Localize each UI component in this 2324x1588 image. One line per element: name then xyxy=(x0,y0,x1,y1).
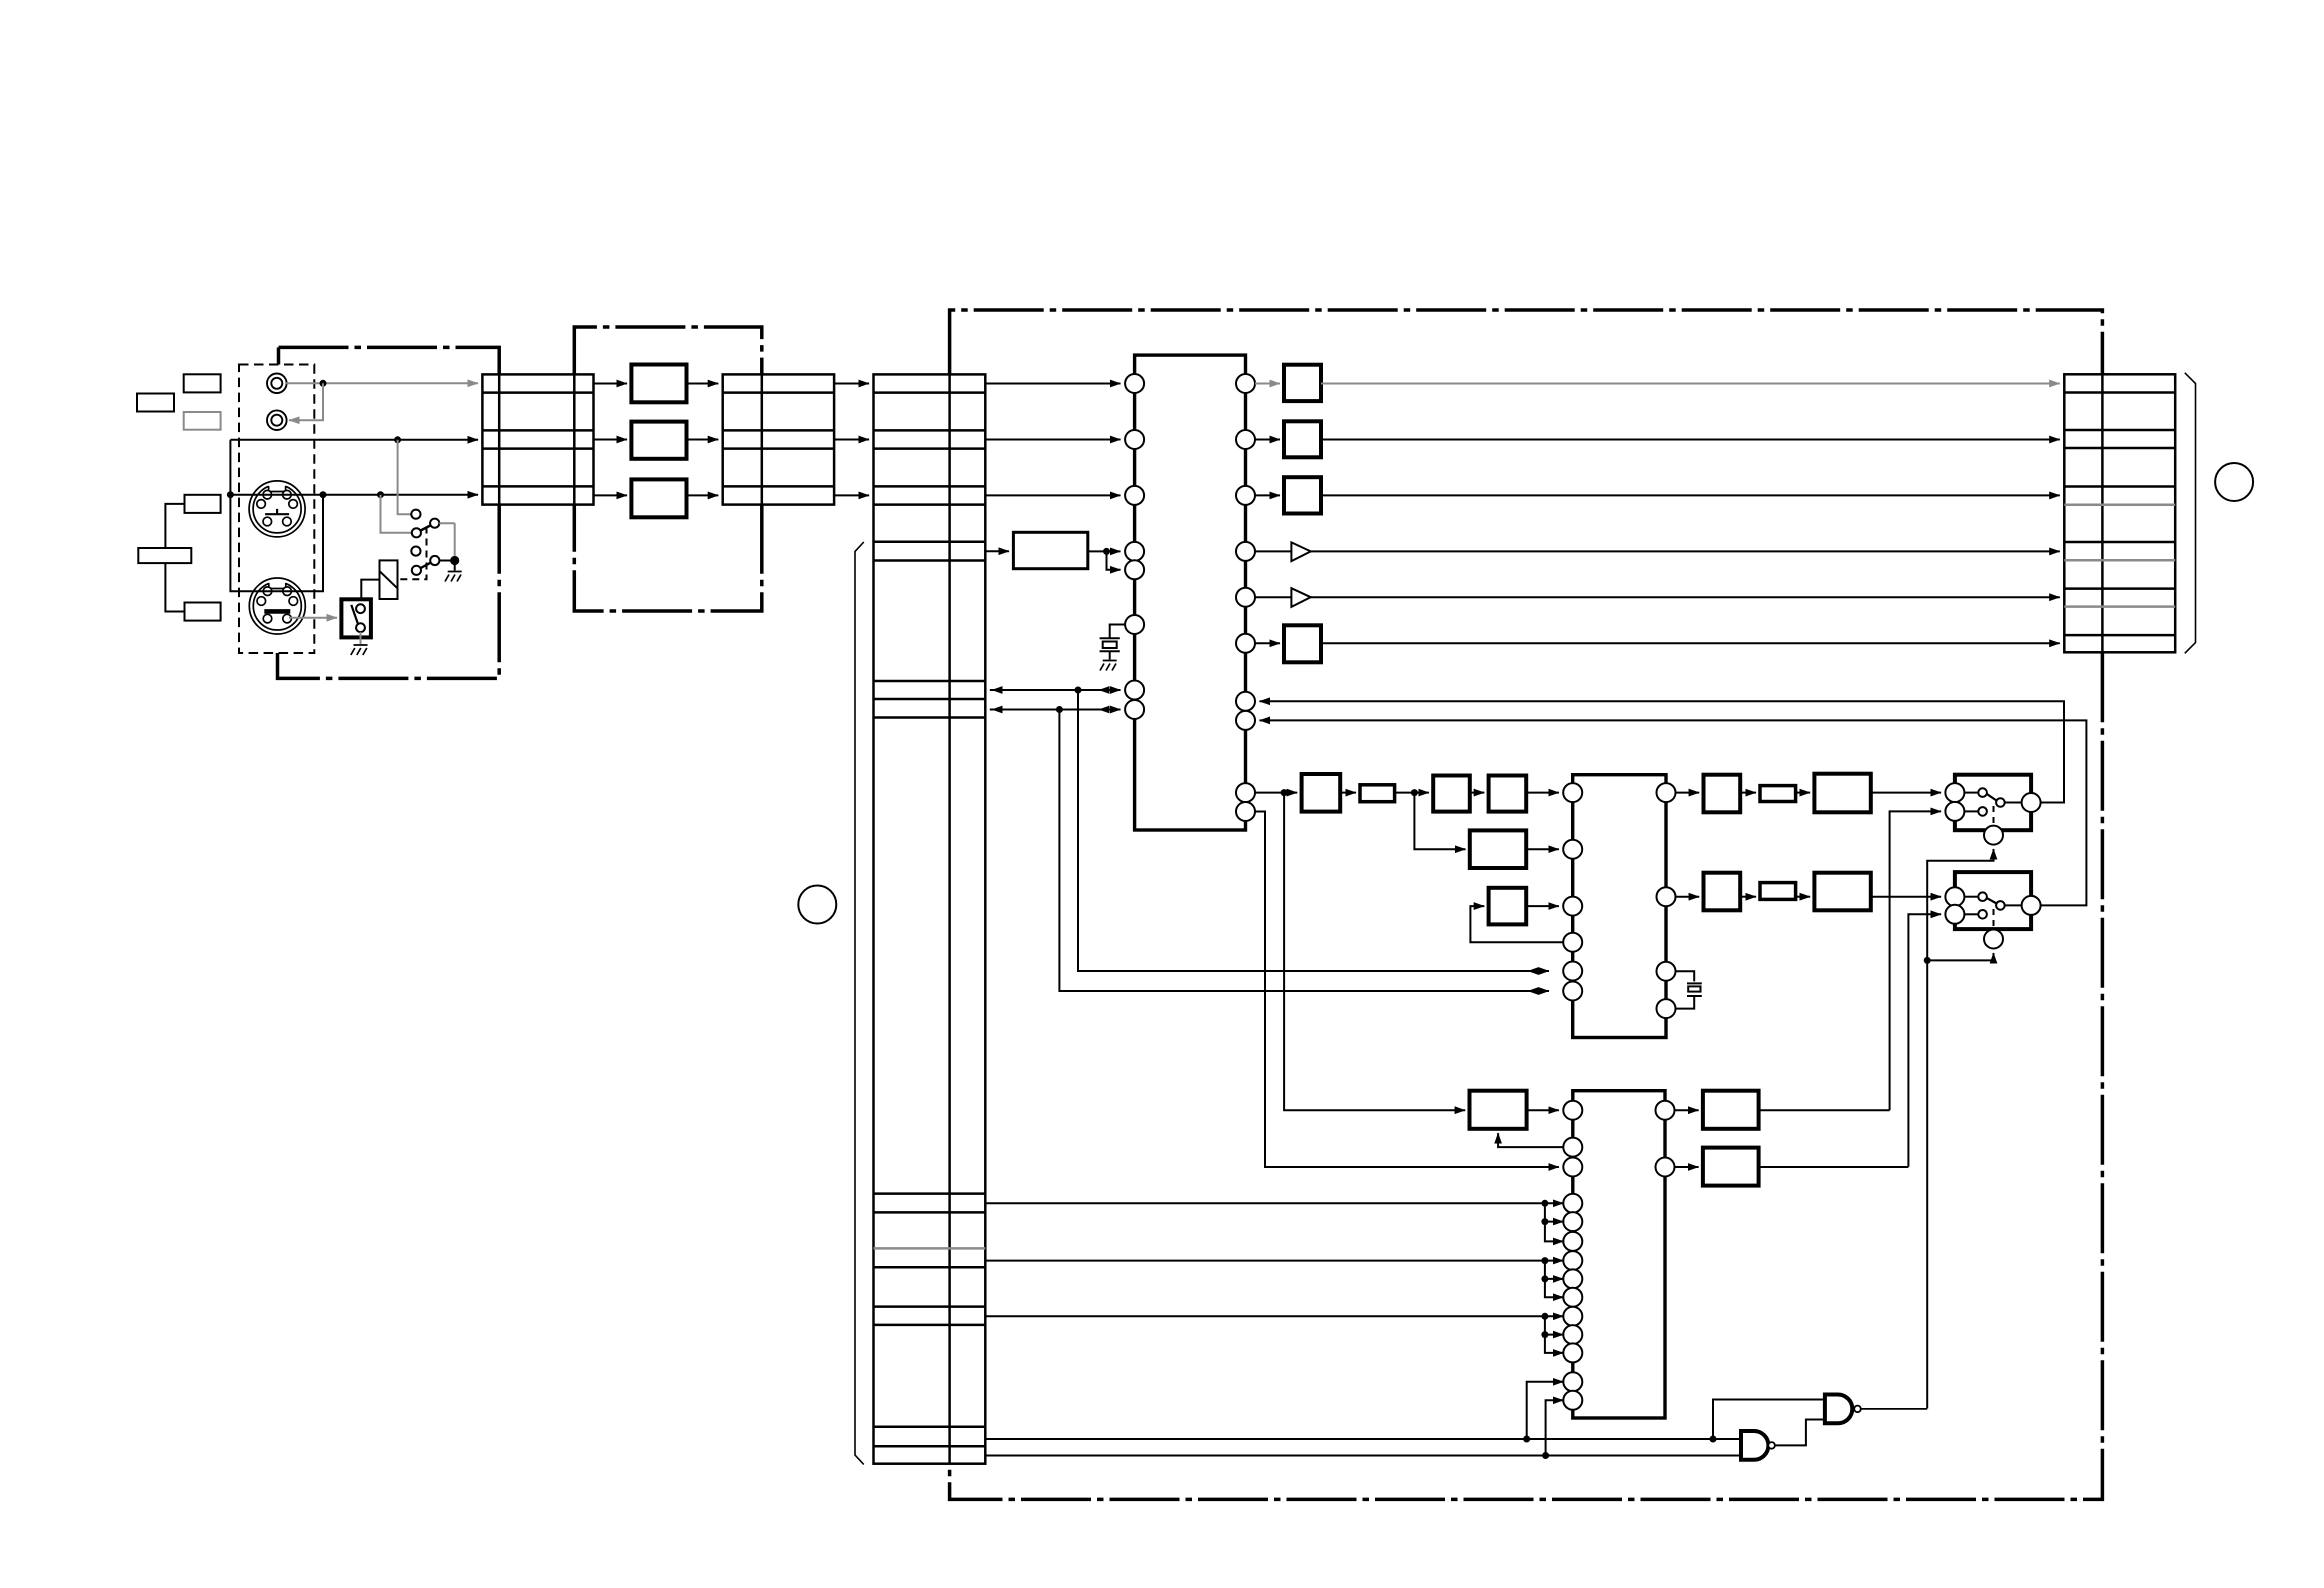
block G3 xyxy=(1470,830,1526,868)
node group2 junction a xyxy=(1541,1257,1548,1264)
block H3 xyxy=(1704,873,1741,911)
lever SW2 xyxy=(1987,898,1997,904)
switch S1 pole 2 xyxy=(430,556,439,565)
wire CN1 to F1 xyxy=(594,383,628,385)
wire S1 pole1 to ground bus (gray drop) xyxy=(439,523,454,556)
pin SW1 in b xyxy=(1945,802,1964,821)
switch S1 contact d xyxy=(412,566,421,575)
node B reference circle xyxy=(798,886,836,924)
wire CN1 to F2 xyxy=(594,439,628,441)
block H4 xyxy=(1814,873,1870,911)
filter block F2 xyxy=(631,422,686,459)
pin SW2 common xyxy=(2005,904,2022,906)
wire K3 to SW2 riser xyxy=(1759,1166,1909,1168)
switch S1 contact a (from video line, gray) xyxy=(398,440,411,514)
label box L3 (gray) xyxy=(184,412,221,430)
switch S1 pole 1 xyxy=(430,519,439,528)
resistor R1 xyxy=(1360,785,1395,802)
wire B1 to CN4 (gray) xyxy=(1321,383,2060,385)
bubble NAND1 xyxy=(1854,1406,1861,1413)
ground GND2 xyxy=(351,645,368,655)
pin SW1 in a xyxy=(1945,783,1964,802)
pin U3-L12 xyxy=(1563,1343,1582,1362)
switch S2 (detect switch) xyxy=(341,599,371,637)
pin U3-L2 xyxy=(1563,1138,1582,1157)
pin U3-L11 xyxy=(1563,1325,1582,1344)
block B1 xyxy=(1284,365,1321,401)
connector CN4 (right output header) xyxy=(2064,374,2175,652)
wire CN2 to CN3 row3 xyxy=(834,494,869,496)
switch S1 contact c xyxy=(411,547,420,556)
wire NAND1 output to control bus xyxy=(1861,1408,1927,1410)
node DL1 out junction xyxy=(1103,548,1110,555)
block B5 xyxy=(1302,774,1341,812)
pin U2-L1 xyxy=(1563,783,1582,802)
wire elbow to U3-L14 xyxy=(1546,1400,1564,1455)
switch SW2 xyxy=(1955,872,2031,929)
block B4 xyxy=(1284,625,1321,662)
wire A2 to CN4 xyxy=(1311,596,2060,598)
node A reference circle xyxy=(2215,463,2253,501)
wire K1 to U3-L1 xyxy=(1527,1109,1559,1111)
node group3 junction b xyxy=(1541,1331,1548,1338)
board boundary: input jack board (dash-dot) xyxy=(278,347,500,678)
wire H1 to R2 xyxy=(1740,792,1756,794)
wire F2 to CN2 xyxy=(687,439,719,441)
amp A2 (triangle) xyxy=(1255,588,1311,607)
wire Y line xyxy=(230,494,478,496)
wire U2-L4 feedback to G4 xyxy=(1470,906,1563,942)
wire B3 to CN4 xyxy=(1321,494,2060,496)
node Y junction 1 xyxy=(227,491,234,498)
block G4 xyxy=(1489,888,1527,925)
pin U1-L2 xyxy=(1125,430,1144,449)
bubble NAND2 xyxy=(1768,1442,1775,1449)
wire U3-R2 to K3 xyxy=(1675,1166,1699,1168)
wire B5 to R1 xyxy=(1340,792,1356,794)
wire CN3 bus line 2 to U3 group2 xyxy=(985,1260,1563,1262)
wire R1 to G1 xyxy=(1395,792,1429,794)
wire elbow to U3-L13 xyxy=(1527,1382,1564,1439)
pin U1-L1 xyxy=(1125,374,1144,393)
wire R2 to H2 xyxy=(1796,792,1811,794)
wire group2 elbow to U3-L9 xyxy=(1545,1279,1564,1297)
pin U2-R1 xyxy=(1657,783,1676,802)
crystal X2 xyxy=(1676,971,1702,1008)
node Y junction 2 xyxy=(320,491,327,498)
wire G2 to U2-L1 xyxy=(1526,792,1559,794)
wire S1 pole2 to ground node xyxy=(439,560,454,562)
label box L5 (wide) xyxy=(138,548,191,563)
pin U1-R4 xyxy=(1236,542,1255,561)
pin U3-L5 xyxy=(1563,1212,1582,1231)
node line A junction 1 xyxy=(1523,1436,1530,1443)
node R9 junction xyxy=(1281,789,1288,796)
wire DL1 branch to U1-L5 xyxy=(1107,551,1121,569)
pin U1-L4 xyxy=(1125,542,1144,561)
contact SW2 moving xyxy=(1996,901,2005,910)
pin U1-R2 xyxy=(1236,430,1255,449)
bracket (left) for CN3 lower section xyxy=(855,542,864,1465)
IC U1 (video processor) xyxy=(1135,355,1246,830)
wire loopthrough to J2 (gray) xyxy=(289,383,323,420)
pin U1-R7 xyxy=(1236,692,1255,711)
wire K2 to SW1 riser xyxy=(1759,1109,1890,1111)
wire R1 branch to G3 xyxy=(1414,793,1465,850)
wire U3-L2 feedback to K1 xyxy=(1498,1133,1563,1147)
pin U3-R1 xyxy=(1656,1101,1675,1120)
crystal X1 xyxy=(1100,625,1126,660)
wire U1-R1 to buffer B1 (gray) xyxy=(1255,383,1280,385)
node bus1 junction xyxy=(1075,687,1082,694)
RCA jack J2 xyxy=(267,410,287,430)
connector CN2 (filter board input header) xyxy=(723,374,834,504)
label box L2 xyxy=(137,394,174,412)
pin SW2 in b xyxy=(1945,905,1964,924)
amp A1 (triangle) xyxy=(1255,542,1311,561)
pin SW2 in a xyxy=(1945,887,1964,906)
pin U1-L3 xyxy=(1125,486,1144,505)
bracket (right) for CN4 xyxy=(2185,373,2196,654)
block K2 xyxy=(1703,1091,1759,1129)
wire H2 to SW1 input a xyxy=(1871,792,1941,794)
node bus2 junction xyxy=(1056,706,1063,713)
wire U1-R9 to B5 xyxy=(1255,792,1297,794)
board boundary: main board (dash-dot) xyxy=(950,310,2103,1499)
wire R3 to H4 xyxy=(1796,896,1811,898)
link SW1 (dashed) xyxy=(1993,806,1995,826)
wire U1-R3 to buffer B3 xyxy=(1255,494,1280,496)
pin U1-R9 xyxy=(1236,783,1255,802)
pin U3-L13 xyxy=(1563,1372,1582,1391)
mechanical link S1 (dashed) xyxy=(399,527,427,580)
pin SW2 control xyxy=(1984,930,2003,949)
wire U1-R6 to buffer B4 xyxy=(1255,642,1280,644)
pin U1-L8 xyxy=(1125,700,1144,719)
connector CN1 (jack board edge, double header) xyxy=(482,374,593,504)
pin U1-L6 xyxy=(1125,615,1144,634)
wire switch SW2 output to U1-R8 xyxy=(1260,720,2087,905)
S-video jack J3 (mini-DIN) xyxy=(249,481,305,537)
pin U2-R4 xyxy=(1657,999,1676,1018)
wire relay to switch S2 xyxy=(361,580,379,600)
wire SW1 input b from divider chain xyxy=(1890,811,1942,1110)
contact SW2 a xyxy=(1964,896,1978,898)
node Y junction 3 xyxy=(377,491,384,498)
wire U2-R2 to H3 xyxy=(1676,896,1700,898)
switch SW1 xyxy=(1955,775,2031,831)
pin U1-R8 xyxy=(1236,711,1255,730)
wire control bus to SW1 xyxy=(1927,849,1993,1409)
wire group3 elbow to U3-L11 xyxy=(1545,1316,1564,1334)
pin U1-R5 xyxy=(1236,588,1255,607)
pin SW1 common xyxy=(2005,802,2022,804)
wire label-chain L4-L5-L6 xyxy=(165,504,184,612)
pin U3-L14 xyxy=(1563,1391,1582,1410)
wire U1-R10 to U3-L3 xyxy=(1255,812,1559,1168)
connector CN3 (main board edge, tall header) xyxy=(874,374,986,1463)
wire switch SW1 output to U1-R7 xyxy=(1260,701,2065,802)
wire U3-R1 to K2 xyxy=(1675,1109,1699,1111)
node R1 out junction xyxy=(1411,789,1418,796)
resistor R2 xyxy=(1760,786,1796,802)
wire U1-R2 to buffer B2 xyxy=(1255,439,1280,441)
node ground junction xyxy=(450,556,459,565)
wire control branch to SW2 xyxy=(1927,953,1993,960)
pin U3-L8 xyxy=(1563,1269,1582,1288)
wire S2 to ground (gray) xyxy=(360,632,362,644)
pin U3-L6 xyxy=(1563,1232,1582,1251)
wire CN3 to U1-L8 (bidirectional bus) xyxy=(990,709,1121,711)
wire CN1 to F3 xyxy=(594,494,628,496)
block B2 xyxy=(1284,421,1321,457)
pin U1-R1 xyxy=(1236,374,1255,393)
pin U1-L7 xyxy=(1125,681,1144,700)
wire H3 to R3 xyxy=(1740,896,1756,898)
pin U2-L5 xyxy=(1563,962,1582,981)
block H1 xyxy=(1704,775,1741,813)
wire CN3 bus line 1 to U3 group1 xyxy=(985,1202,1563,1204)
IC U2 (sync separator) xyxy=(1573,775,1666,1038)
wire CN3 line B xyxy=(985,1455,1741,1457)
lever SW1 xyxy=(1987,794,1997,801)
wire CN3 to U1-L3 xyxy=(985,494,1120,496)
node line A junction 2 xyxy=(1710,1436,1717,1443)
wire group2 elbow to U3-L8 xyxy=(1545,1261,1564,1279)
node group3 junction a xyxy=(1541,1313,1548,1320)
IC U3 (system controller) xyxy=(1573,1091,1665,1418)
pin SW1 control xyxy=(1984,826,2003,845)
label box L1 xyxy=(184,374,221,392)
pin U1-L5 xyxy=(1125,560,1144,579)
RCA jack J1 xyxy=(267,374,287,394)
node chroma junction xyxy=(320,380,327,387)
node group1 junction a xyxy=(1541,1200,1548,1207)
wire SW2 input b from divider chain xyxy=(1908,914,1941,1167)
resistor R3 xyxy=(1760,883,1796,900)
pin U2-L6 xyxy=(1563,982,1582,1001)
wire CN3 to U1-L2 xyxy=(985,439,1120,441)
pin U2-R3 xyxy=(1657,962,1676,981)
wire CN2 to CN3 row2 xyxy=(834,439,869,441)
block B3 xyxy=(1284,477,1321,513)
relay RY1 xyxy=(380,560,398,599)
wire line A to NAND1 input 1 xyxy=(1713,1400,1825,1440)
wire CN3 to U1-L7 (bidirectional bus) xyxy=(990,689,1121,691)
contact SW1 moving xyxy=(1996,798,2005,807)
node video junction xyxy=(394,436,401,443)
jack panel dashed outline xyxy=(239,365,314,654)
block H2 xyxy=(1814,774,1870,813)
pin U2-L2 xyxy=(1563,840,1582,859)
pin U3-R2 xyxy=(1656,1158,1675,1177)
pin U1-R6 xyxy=(1236,634,1255,653)
wire G1 to G2 xyxy=(1470,792,1485,794)
S-video jack J4 (mini-DIN) xyxy=(249,578,305,634)
wire bus2 to U2-L6 xyxy=(1059,710,1549,992)
label box L4 xyxy=(185,495,221,513)
wire A1 to CN4 xyxy=(1311,550,2060,552)
filter block F1 xyxy=(631,365,686,403)
pin U1-R3 xyxy=(1236,486,1255,505)
wire NAND2 out to NAND1 input 2 xyxy=(1775,1420,1825,1446)
wire B4 to CN4 xyxy=(1321,642,2060,644)
block DL1 (delay) xyxy=(1013,532,1087,568)
wire G4 to U2-L3 xyxy=(1526,905,1559,907)
pin U2-R2 xyxy=(1657,887,1676,906)
wire J4 detect to S2 (gray) xyxy=(289,617,337,619)
ground GND3 xyxy=(1100,661,1117,671)
wire CN3 to delay block xyxy=(985,550,1009,552)
wire CN3 bus line 3 to U3 group3 xyxy=(985,1315,1563,1317)
wire video line Y2 xyxy=(230,439,478,441)
node line B junction xyxy=(1542,1452,1549,1459)
block K3 xyxy=(1703,1148,1759,1186)
pin U3-L4 xyxy=(1563,1194,1582,1213)
wire B2 to CN4 xyxy=(1321,439,2060,441)
gate NAND2 xyxy=(1741,1431,1768,1460)
block G2 xyxy=(1489,776,1527,812)
pin U2-L3 xyxy=(1563,897,1582,916)
block G1 xyxy=(1433,776,1470,812)
wire DIN loop xyxy=(230,495,323,592)
wire H4 to SW2 input a xyxy=(1871,896,1941,898)
pin U1-R10 xyxy=(1236,802,1255,821)
gate NAND1 xyxy=(1825,1395,1852,1424)
wire CN3 line A (mode) xyxy=(985,1438,1741,1440)
contact SW1 b xyxy=(1964,810,1978,812)
wire group1 elbow to U3-L5 xyxy=(1545,1203,1564,1221)
wire video drop xyxy=(229,440,231,495)
wire group1 elbow to U3-L6 xyxy=(1545,1222,1564,1242)
ground GND1 xyxy=(445,561,462,582)
link SW2 (dashed) xyxy=(1993,909,1995,929)
wire F1 to CN2 xyxy=(687,383,719,385)
block K1 xyxy=(1470,1091,1527,1129)
wire group3 elbow to U3-L12 xyxy=(1545,1335,1564,1353)
node control junction xyxy=(1924,957,1931,964)
switch S1 contact b (from Y line, gray) xyxy=(381,495,412,533)
pin U3-L10 xyxy=(1563,1307,1582,1326)
wire CN2 to CN3 row1 xyxy=(834,383,869,385)
wire J1 chroma out (gray) xyxy=(286,382,478,384)
pin U3-L7 xyxy=(1563,1251,1582,1270)
contact SW1 a xyxy=(1964,792,1978,794)
wire bus1 to U2-L5 xyxy=(1078,690,1549,971)
pin U3-L9 xyxy=(1563,1288,1582,1307)
pin U3-L1 xyxy=(1563,1101,1582,1120)
pin U2-L4 xyxy=(1563,933,1582,952)
board boundary: filter board (dash-dot) xyxy=(574,327,762,611)
wire DL1 to U1-L4 xyxy=(1088,550,1121,552)
filter block F3 xyxy=(631,479,686,517)
node group1 junction b xyxy=(1541,1218,1548,1225)
wire U1-R9 branch to K1 xyxy=(1284,793,1465,1111)
wire U2-R1 to H1 xyxy=(1676,792,1700,794)
wire G3 to U2-L2 xyxy=(1526,848,1559,850)
node group2 junction b xyxy=(1541,1275,1548,1282)
wire F3 to CN2 xyxy=(687,494,719,496)
wire CN3 to U1-L1 xyxy=(985,383,1120,385)
label box L6 xyxy=(185,603,221,621)
contact SW2 b xyxy=(1964,913,1978,915)
pin U3-L3 xyxy=(1563,1158,1582,1177)
